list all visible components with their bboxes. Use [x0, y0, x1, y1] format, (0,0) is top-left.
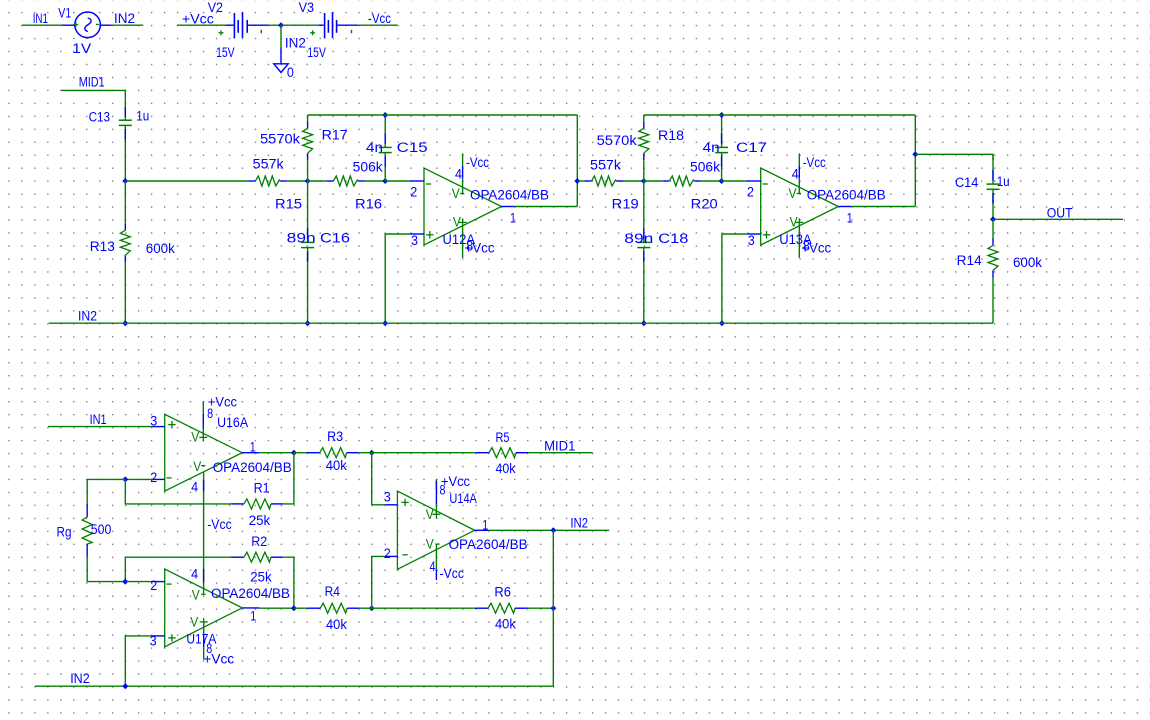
svg-text:557k: 557k: [253, 156, 284, 171]
junction IN2 supply: [278, 22, 284, 28]
U17A minus input mark: [166, 583, 171, 585]
wire R4 to R6: [359, 607, 475, 609]
wire rail to U17A pin3: [125, 636, 152, 686]
resistor R19: [585, 180, 592, 182]
U16A minus input mark: [166, 477, 171, 479]
resistor R1: [231, 503, 244, 505]
wire junction to R4: [294, 607, 307, 609]
wire rail to pin3: [385, 234, 410, 323]
wire output tap to C14: [915, 154, 993, 160]
U12A minus input mark: [426, 183, 431, 185]
U14A pin3 stub: [385, 504, 397, 506]
svg-text:-Vcc: -Vcc: [440, 566, 465, 581]
svg-text:40k: 40k: [326, 617, 347, 632]
svg-text:89n: 89n: [624, 231, 653, 246]
junction stage1 output to R19: [574, 178, 580, 184]
svg-text:V: V: [190, 614, 198, 629]
V3 minus mark: [351, 30, 353, 34]
svg-text:2: 2: [384, 546, 391, 561]
svg-text:89n: 89n: [287, 231, 316, 246]
wire R1 right to output: [283, 453, 294, 504]
U16A output stub pin1: [242, 452, 259, 454]
svg-text:4: 4: [191, 480, 198, 495]
svg-text:40k: 40k: [495, 617, 516, 632]
svg-text:R17: R17: [322, 127, 348, 142]
wire U14A output to IN2: [488, 529, 609, 531]
svg-text:R15: R15: [275, 196, 302, 211]
svg-text:1: 1: [250, 440, 256, 455]
svg-text:C13: C13: [89, 110, 110, 125]
svg-text:V2: V2: [208, 0, 223, 15]
junction R20 C17 pin2: [719, 178, 725, 184]
U17A plus input mark: [168, 637, 175, 639]
svg-text:2: 2: [150, 470, 157, 485]
U14A pin8 power stub: [435, 479, 437, 490]
svg-text:3: 3: [748, 233, 755, 248]
svg-text:15V: 15V: [216, 45, 235, 60]
svg-text:+Vcc: +Vcc: [465, 241, 495, 256]
wire R19 to junction: [624, 180, 644, 182]
V3 plus mark: [310, 32, 315, 34]
svg-text:2: 2: [410, 184, 417, 199]
U13A output stub pin1: [838, 206, 851, 208]
svg-text:OPA2604/BB: OPA2604/BB: [807, 187, 886, 202]
wire R14 to rail corner: [49, 322, 993, 324]
ground 0 symbol: [274, 64, 288, 73]
U12A pin4 power stub: [462, 153, 464, 166]
resistor R20: [644, 180, 663, 182]
resistor R3: [307, 452, 320, 454]
U14A minus input mark: [403, 554, 408, 556]
U12A pin3 stub: [410, 233, 424, 235]
wire feedback top rail stage1: [308, 114, 578, 116]
battery V3: [318, 12, 358, 38]
svg-text:V: V: [789, 186, 797, 201]
svg-text:25k: 25k: [249, 513, 271, 528]
svg-text:2: 2: [747, 184, 754, 199]
junction C16 to rail: [305, 320, 311, 326]
wire junction to pin2 U13A: [722, 180, 747, 182]
source V1: [75, 12, 101, 38]
resistor Rg: [86, 504, 88, 517]
svg-text:8: 8: [207, 406, 213, 421]
wire +Vcc to V2: [177, 24, 226, 26]
V2 plus mark: [219, 32, 224, 34]
svg-text:C17: C17: [736, 140, 767, 155]
junction pin3 wire to rail stage2: [719, 320, 725, 326]
op-amp U16A: [165, 414, 243, 491]
svg-text:2: 2: [150, 578, 157, 593]
capacitor C17: [721, 115, 723, 147]
wire junction to U17A pin2: [125, 581, 152, 583]
svg-text:0: 0: [287, 65, 294, 80]
svg-text:3: 3: [411, 233, 418, 248]
op-amp U17A: [165, 569, 243, 647]
U16A pin3 stub: [153, 426, 165, 428]
op-amp U14A: [397, 491, 474, 569]
svg-text:R3: R3: [327, 429, 343, 444]
wire stage1 feedback vertical: [576, 115, 578, 207]
svg-text:40k: 40k: [326, 458, 347, 473]
svg-text:-Vcc: -Vcc: [466, 155, 489, 170]
svg-text:V: V: [191, 430, 199, 445]
svg-text:506k: 506k: [353, 160, 383, 175]
wire junction to Rg top: [87, 479, 125, 504]
svg-text:V: V: [426, 537, 434, 552]
svg-text:-Vcc: -Vcc: [803, 155, 826, 170]
wire R15 to junction: [287, 180, 307, 182]
svg-text:MID1: MID1: [544, 439, 575, 454]
svg-text:R6: R6: [494, 585, 511, 600]
wire Rg bottom to junction: [87, 556, 125, 582]
U12A pin2 stub: [410, 180, 424, 182]
resistor R17: [307, 115, 309, 121]
resistor R2: [231, 556, 244, 558]
U12A pin8 power stub: [462, 226, 464, 258]
wire R5 to MID1: [528, 452, 593, 454]
svg-text:-Vcc: -Vcc: [368, 11, 391, 26]
op-amp U12A: [424, 168, 502, 245]
svg-text:+Vcc: +Vcc: [203, 652, 234, 667]
svg-text:C18: C18: [658, 231, 688, 246]
wire input node to R15: [125, 180, 248, 182]
wire junction to pin2: [385, 180, 410, 182]
svg-text:R14: R14: [957, 253, 982, 268]
resistor R15: [248, 180, 255, 182]
U12A plus input mark: [426, 234, 433, 236]
U13A plus input mark: [763, 234, 770, 236]
wire R4 junction to U14A pin2: [372, 556, 386, 608]
junction R19 R20 R18 C18: [641, 178, 647, 184]
svg-text:IN1: IN1: [90, 412, 107, 427]
battery V2: [226, 12, 269, 38]
capacitor C13: [124, 106, 126, 120]
resistor R4: [307, 607, 320, 609]
svg-text:500: 500: [91, 522, 112, 537]
V2 minus mark: [260, 30, 262, 34]
svg-text:V1: V1: [58, 6, 71, 21]
svg-text:V: V: [452, 186, 460, 201]
svg-text:OUT: OUT: [1047, 206, 1073, 221]
U17A pin8 power stub: [203, 622, 205, 634]
svg-text:3: 3: [384, 489, 391, 504]
V1 minus mark: [96, 23, 99, 25]
U14A output stub pin1: [475, 529, 489, 531]
junction U17A pin2 node: [122, 579, 128, 585]
junction R15 R16 R17 C16: [305, 178, 311, 184]
U16A plus input mark: [168, 424, 175, 426]
svg-text:C15: C15: [397, 140, 428, 155]
wire IN2 node down to R6 line: [552, 530, 554, 608]
svg-text:1: 1: [482, 518, 488, 533]
U13A pin2 stub: [747, 180, 761, 182]
svg-text:506k: 506k: [690, 160, 720, 175]
svg-text:R20: R20: [691, 196, 718, 211]
svg-text:IN2: IN2: [285, 35, 306, 50]
svg-text:R5: R5: [496, 430, 510, 445]
svg-text:R1: R1: [254, 481, 270, 496]
wire U17A output to junction: [259, 607, 294, 609]
svg-text:IN2: IN2: [78, 309, 97, 324]
junction U16A output: [291, 450, 297, 456]
wire junction to R19: [577, 180, 584, 182]
junction U17A output: [291, 605, 297, 611]
svg-text:+Vcc: +Vcc: [801, 241, 831, 256]
junction IN2 output node: [550, 527, 556, 533]
svg-text:IN1: IN1: [33, 11, 48, 26]
svg-text:557k: 557k: [590, 157, 621, 172]
svg-text:U16A: U16A: [217, 415, 248, 430]
svg-text:IN2: IN2: [70, 671, 90, 686]
wire MID1: [61, 90, 125, 106]
junction stage2 output tap: [912, 151, 918, 157]
resistor R18: [643, 115, 645, 121]
svg-text:1V: 1V: [72, 41, 91, 56]
svg-text:1u: 1u: [136, 108, 149, 123]
svg-text:R2: R2: [251, 534, 267, 549]
svg-text:3: 3: [150, 634, 157, 649]
svg-text:OPA2604/BB: OPA2604/BB: [213, 460, 292, 475]
svg-text:8: 8: [440, 483, 446, 498]
junction R6 output node: [550, 605, 556, 611]
wire stage2 feedback vertical: [914, 115, 916, 207]
svg-text:U14A: U14A: [449, 491, 477, 506]
svg-text:-Vcc: -Vcc: [207, 517, 232, 532]
wire junction to ground: [280, 25, 282, 47]
svg-text:25k: 25k: [250, 570, 272, 585]
U17A output stub pin1: [242, 607, 259, 609]
svg-text:Rg: Rg: [57, 525, 72, 540]
svg-text:15V: 15V: [307, 45, 326, 60]
wire U12A output to feedback: [515, 206, 578, 208]
svg-text:R4: R4: [325, 584, 341, 599]
svg-text:1: 1: [510, 211, 516, 226]
svg-text:5570k: 5570k: [597, 133, 637, 148]
svg-text:600k: 600k: [1013, 255, 1042, 270]
svg-text:R13: R13: [90, 239, 115, 254]
junction C15 to feedback rail: [382, 112, 388, 118]
wire junction to V3: [281, 24, 318, 26]
wire R1 feedback left: [125, 479, 231, 504]
wire U13A output to feedback: [851, 206, 915, 208]
svg-text:4n: 4n: [366, 140, 383, 155]
U14A pin2 stub: [385, 555, 397, 557]
svg-text:V3: V3: [299, 0, 315, 15]
svg-text:C14: C14: [955, 175, 979, 190]
U14A pin4 power stub: [435, 544, 437, 569]
resistor R5: [476, 452, 489, 454]
svg-text:R16: R16: [355, 196, 382, 211]
wire R3 to R5: [359, 452, 476, 454]
wire IN1 to U16A pin3: [48, 426, 153, 428]
svg-text:1: 1: [250, 609, 256, 624]
svg-text:40k: 40k: [496, 461, 516, 476]
svg-text:V: V: [192, 587, 200, 602]
junction R13 to IN2 rail: [122, 320, 128, 326]
svg-text:4n: 4n: [703, 140, 720, 155]
wire IN2 node to bottom rail: [35, 608, 553, 686]
svg-text:OPA2604/BB: OPA2604/BB: [470, 187, 549, 202]
junction C18 to rail: [641, 320, 647, 326]
wire R3 junction to U14A pin3: [372, 453, 386, 505]
svg-text:4: 4: [430, 559, 436, 574]
capacitor C18: [643, 181, 645, 242]
U16A U17A pin4 power line: [203, 472, 205, 594]
junction U16A pin2 node: [122, 476, 128, 482]
capacitor C15: [384, 115, 386, 147]
resistor R14: [992, 219, 994, 238]
svg-text:OPA2604/BB: OPA2604/BB: [449, 537, 528, 552]
wire junction to R3: [294, 452, 307, 454]
capacitor C16: [307, 181, 309, 242]
resistor R13: [124, 181, 126, 223]
wire feedback top rail stage2: [644, 114, 916, 116]
svg-text:R19: R19: [612, 196, 639, 211]
junction R16 C15 pin2: [382, 178, 388, 184]
U13A pin8 power stub: [798, 226, 800, 258]
junction input node stage1: [122, 178, 128, 184]
svg-text:4: 4: [792, 166, 799, 181]
junction bottom rail to U17A pin3: [122, 683, 128, 689]
capacitor C14: [992, 154, 994, 184]
U13A pin3 stub: [747, 233, 761, 235]
U16A pin8 power stub: [202, 401, 204, 414]
wire U16A output to junction: [259, 452, 294, 454]
wire R2 right to U17A output: [283, 557, 294, 608]
wire IN1 to V1: [22, 24, 62, 26]
svg-text:600k: 600k: [146, 241, 175, 256]
op-amp U13A: [761, 168, 839, 245]
svg-text:MID1: MID1: [79, 75, 105, 90]
resistor R16: [308, 180, 327, 182]
svg-text:OPA2604/BB: OPA2604/BB: [211, 586, 290, 601]
junction C17 to feedback rail: [719, 112, 725, 118]
U16A pin2 stub: [153, 478, 165, 480]
junction R3 R5 pin3: [369, 450, 375, 456]
svg-text:1u: 1u: [997, 174, 1010, 189]
U17A pin3 stub: [153, 635, 165, 637]
junction R4 R6 pin2: [369, 605, 375, 611]
wire rail to pin3 U13A: [722, 234, 747, 323]
svg-text:IN2: IN2: [570, 516, 588, 531]
svg-text:V: V: [193, 459, 201, 474]
wire R6 to IN2 node: [527, 607, 553, 609]
U14A plus input mark: [401, 501, 408, 503]
resistor R6: [475, 607, 488, 609]
wire junction to U16A pin2: [125, 478, 152, 480]
svg-text:IN2: IN2: [114, 11, 135, 26]
U13A pin4 power stub: [798, 153, 800, 166]
U13A minus input mark: [763, 183, 768, 185]
junction C14 R14 OUT: [990, 216, 996, 222]
wire V3 to -Vcc: [358, 24, 398, 26]
svg-text:4: 4: [191, 566, 198, 581]
wire R2 loop left: [125, 557, 231, 581]
U17A pin2 stub: [153, 581, 165, 583]
svg-text:5570k: 5570k: [260, 131, 300, 146]
svg-text:R18: R18: [658, 128, 684, 143]
wire V2 to junction: [268, 24, 281, 26]
wire OUT: [993, 218, 1123, 220]
junction pin3 wire to rail: [382, 320, 388, 326]
V1 plus mark: [73, 24, 78, 26]
U12A output stub pin1: [502, 206, 515, 208]
svg-text:1: 1: [847, 211, 853, 226]
svg-text:3: 3: [150, 414, 157, 429]
svg-text:C16: C16: [320, 231, 350, 246]
svg-text:4: 4: [455, 166, 462, 181]
wire V1 to IN2 label: [100, 24, 111, 26]
